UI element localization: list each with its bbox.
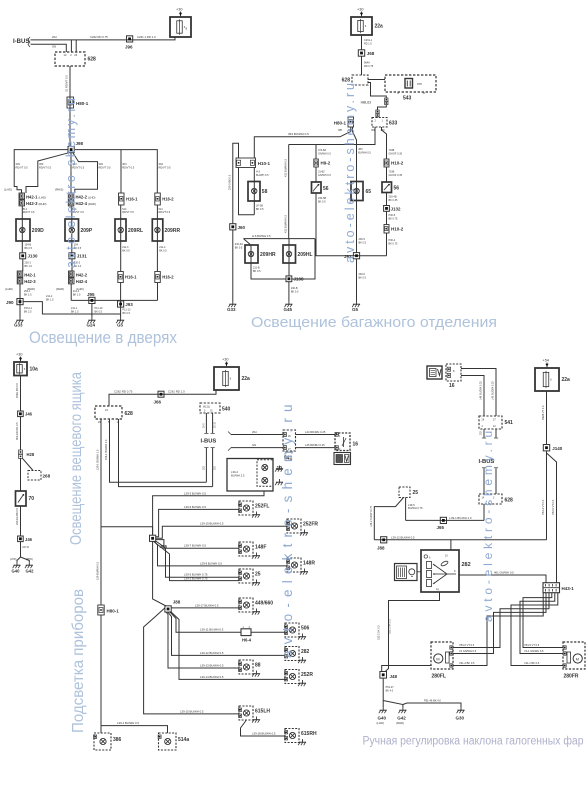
wire J88 to lamp 252R <box>171 612 285 680</box>
svg-text:RD/VT 0.5: RD/VT 0.5 <box>122 211 134 214</box>
svg-text:461 GN/WH 0.5: 461 GN/WH 0.5 <box>494 571 514 575</box>
unit 268 (dashed) <box>28 471 41 481</box>
svg-text:J90: J90 <box>6 300 14 305</box>
connector H10-2 (upper right) <box>384 159 389 167</box>
svg-text:303: 303 <box>159 162 164 166</box>
svg-text:G42: G42 <box>397 716 406 721</box>
wire J98 right branch to H16-1 / H16-2 <box>75 150 157 193</box>
wire J140 V54-4 down-left to bus <box>546 451 548 540</box>
wire 25 down to J65 line <box>405 498 407 521</box>
svg-text:P51-46 BK 4.0: P51-46 BK 4.0 <box>424 699 441 703</box>
svg-text:I-BUS: I-BUS <box>201 439 217 445</box>
wire J65 down to J88 <box>153 541 166 606</box>
lamp 514a <box>159 733 177 750</box>
wire H10-2 to switch 56 right <box>386 167 388 182</box>
svg-text:(LHD): (LHD) <box>5 287 13 291</box>
ground G33 (luggage) <box>232 301 234 304</box>
svg-text:(RHD): (RHD) <box>396 721 404 725</box>
wire H80-1 to H10-1 (363 BU/WH) <box>254 127 350 158</box>
wires I-BUS to module 628 <box>482 467 486 469</box>
svg-text:BK 2.5: BK 2.5 <box>24 310 32 313</box>
connector H9-2 <box>314 159 319 167</box>
svg-text:J46: J46 <box>25 412 33 417</box>
svg-text:BK 0.5: BK 0.5 <box>159 249 167 252</box>
svg-text:G24: G24 <box>87 323 96 328</box>
switch 56 (trunk lid) <box>312 182 322 193</box>
svg-text:+30: +30 <box>357 8 363 12</box>
wire branch to ground G30 <box>403 703 461 707</box>
wire J48 to grounds <box>382 678 384 700</box>
connector H42-1 / H42-3 (upper) <box>19 193 25 199</box>
ground G40 (levelling) <box>382 707 384 710</box>
svg-text:BK 0.75: BK 0.75 <box>389 242 399 245</box>
wire H10-2 down to J91 <box>386 233 388 256</box>
svg-text:25: 25 <box>255 572 261 578</box>
svg-text:BU/WH 2.5: BU/WH 2.5 <box>231 474 245 478</box>
ground G45 <box>288 301 290 304</box>
svg-text:BK 0.5: BK 0.5 <box>318 200 326 203</box>
svg-text:514a: 514a <box>178 737 189 743</box>
wire H10-1 return loop (left pin up-over) <box>233 143 239 224</box>
svg-text:I-BUS: I-BUS <box>13 39 29 45</box>
svg-text:(RHD): (RHD) <box>39 202 47 206</box>
connector 25 (dashed) <box>399 487 410 498</box>
svg-text:BK 1.5: BK 1.5 <box>46 298 54 301</box>
svg-text:10a: 10a <box>30 366 39 372</box>
ground G42 (levelling) <box>402 707 404 710</box>
wire lamp 58 bottom loop to H10-1 left pin <box>239 168 255 215</box>
svg-text:BK 0.5: BK 0.5 <box>25 247 33 250</box>
svg-text:J132: J132 <box>391 206 402 211</box>
svg-text:J131: J131 <box>77 254 88 259</box>
wire 282 bottom to J48 column <box>385 592 439 672</box>
wire fuse 10a to J46 <box>20 376 22 412</box>
svg-text:G42: G42 <box>26 569 35 574</box>
svg-text:H43-1: H43-1 <box>562 586 575 591</box>
svg-text:J130: J130 <box>28 254 39 259</box>
svg-text:H10-1: H10-1 <box>258 161 271 166</box>
svg-text:628: 628 <box>125 411 134 417</box>
svg-text:L39-1 BU/WH 1.0: L39-1 BU/WH 1.0 <box>450 516 472 520</box>
node J91 <box>353 253 359 259</box>
svg-text:Освещение в дверях: Освещение в дверях <box>29 329 178 347</box>
svg-text:GN: GN <box>52 45 56 49</box>
wire switch 56 to J132 <box>386 193 388 206</box>
dimmer wheel icon <box>395 564 418 581</box>
svg-text:C262 RD 0.75: C262 RD 0.75 <box>114 390 133 394</box>
relay box 543 (dashed) <box>385 75 436 92</box>
wire J88 line to 282 and J140 corner <box>374 539 546 541</box>
svg-text:56: 56 <box>394 186 400 192</box>
svg-text:H16-1: H16-1 <box>125 275 137 280</box>
svg-text:282: 282 <box>462 562 471 568</box>
lamp 209P (passenger door) <box>65 219 79 241</box>
svg-text:M: M <box>436 656 439 661</box>
ground G40 (glovebox) <box>16 562 18 565</box>
svg-text:615LH: 615LH <box>255 709 270 715</box>
node J108 <box>286 276 292 282</box>
svg-text:209HL: 209HL <box>298 252 313 258</box>
svg-text:L45 BU/264 0.25: L45 BU/264 0.25 <box>492 381 495 400</box>
headlamp motor 280FL <box>431 642 453 669</box>
svg-text:G5: G5 <box>117 323 124 328</box>
wire H43-1 to 280FL pin2 <box>453 593 546 654</box>
junction J96 <box>127 36 133 42</box>
svg-text:(RHD): (RHD) <box>88 202 96 206</box>
svg-text:56: 56 <box>323 186 329 192</box>
svg-text:HBL63: HBL63 <box>361 101 371 105</box>
connector H80-1 (luggage) <box>348 117 354 127</box>
connector block of unit 16 (dashed) <box>446 364 461 381</box>
svg-text:280FR: 280FR <box>564 674 579 680</box>
wire 280FL ground return to J48 <box>382 666 431 672</box>
svg-text:385: 385 <box>338 129 343 132</box>
wire J65 up to instrument cluster 10 (L39-3) <box>153 491 264 535</box>
instrument cluster 10 with lamps <box>227 459 273 492</box>
node J60 <box>230 224 236 230</box>
svg-text:22a: 22a <box>375 24 384 30</box>
svg-text:386: 386 <box>113 737 122 743</box>
lamp 65 (luggage) <box>351 182 363 201</box>
connector H10-2 (lower right) <box>384 225 389 234</box>
connector H42-1 / H42-3 (lower) <box>17 271 23 277</box>
wire J98 center branch to H42-2 <box>70 153 72 193</box>
wire H80-1 to lamp 65 <box>353 127 357 182</box>
connector H6-4 <box>241 629 251 636</box>
lamp 386 <box>94 733 111 750</box>
svg-text:(LHS): (LHS) <box>4 188 12 192</box>
svg-text:J140: J140 <box>552 446 563 451</box>
svg-text:L39-4: L39-4 <box>231 470 238 474</box>
svg-text:H-6 BU/WH 0.5: H-6 BU/WH 0.5 <box>252 234 271 238</box>
wire J46 to grounds <box>20 542 22 557</box>
junction J131 <box>69 253 75 259</box>
svg-text:J60: J60 <box>238 225 246 230</box>
svg-text:(RHD): (RHD) <box>26 558 33 561</box>
wire J95 to ground G24 <box>91 304 93 318</box>
lamp 506 <box>285 623 299 637</box>
wire J88 to connector H6-4 and lamp 506 <box>170 612 242 633</box>
svg-text:G45: G45 <box>284 307 293 312</box>
svg-text:H42-3: H42-3 <box>24 279 36 284</box>
svg-text:L39-7 BU/WH 0.5: L39-7 BU/WH 0.5 <box>184 544 206 548</box>
svg-text:L39-3 BU/WH 0.5: L39-3 BU/WH 0.5 <box>184 491 206 495</box>
wire riser 628 pin29 to J65/H80-1 <box>100 419 102 527</box>
lamp 252R <box>285 670 299 684</box>
svg-text:G30: G30 <box>456 716 465 721</box>
ground G24 (section1) <box>91 317 93 320</box>
svg-text:252FR: 252FR <box>303 522 318 528</box>
switch module 633 (dashed) <box>372 118 387 128</box>
module 540 (dashed) <box>200 403 220 413</box>
svg-text:Подсветка приборов: Подсветка приборов <box>70 589 87 733</box>
ground G5 (section1) <box>120 317 122 320</box>
svg-text:303: 303 <box>122 162 127 166</box>
wire 615LH to 615RH <box>241 721 286 737</box>
wire J88 to lamp 282 <box>168 612 285 655</box>
svg-text:230-3 BK 0.5: 230-3 BK 0.5 <box>227 174 231 190</box>
svg-text:BK 1.5: BK 1.5 <box>71 310 79 313</box>
wire 633 to right column <box>382 127 387 159</box>
junction J46 (upper) <box>18 411 24 417</box>
svg-text:RD 1.0: RD 1.0 <box>364 42 372 45</box>
wire 628 pin18 loop <box>119 419 213 487</box>
component 978 inside 543 <box>405 79 413 89</box>
svg-text:WH: WH <box>252 430 257 434</box>
svg-text:Освещение вещевого ящика: Освещение вещевого ящика <box>68 372 85 545</box>
wire J91 to ground G5 <box>356 259 358 301</box>
svg-text:GN: GN <box>252 443 256 447</box>
svg-text:L39-1 BU/WH 0.5: L39-1 BU/WH 0.5 <box>117 721 139 725</box>
wire J90 step to J93 column <box>23 302 121 314</box>
wire lamp 65 to J91 <box>356 182 358 253</box>
svg-text:31 RD/VT 0.5: 31 RD/VT 0.5 <box>65 75 69 92</box>
wire J130 to H42-1 lower <box>22 259 24 271</box>
lamp 252FL <box>239 501 253 515</box>
svg-text:L39-13 BU/WH 0.5: L39-13 BU/WH 0.5 <box>200 664 224 668</box>
connector H42-2 / H42-4 (lower) <box>69 271 75 277</box>
lamp 148F <box>239 542 253 556</box>
wire 25 to J88 line (L39-2) <box>374 498 403 540</box>
svg-text:L39-15 BU/WH 0.5: L39-15 BU/WH 0.5 <box>180 709 204 713</box>
connector H28 <box>19 450 23 454</box>
lamp 209RL (rear left door) <box>115 219 126 241</box>
junction J132 <box>384 206 390 212</box>
wire H43-1 to 280FR pin2 <box>520 593 563 654</box>
svg-text:196-1 BU/264 1.0: 196-1 BU/264 1.0 <box>104 439 108 460</box>
svg-text:H42-1: H42-1 <box>26 194 38 199</box>
svg-text:BK 0.5: BK 0.5 <box>253 270 261 273</box>
wire J65 to lamp 252FR (L39-19) <box>156 526 287 538</box>
svg-text:(LHD): (LHD) <box>10 558 17 561</box>
svg-text:G33: G33 <box>14 323 23 328</box>
lamp 252FR <box>287 519 301 533</box>
svg-text:L45 RD/BU 0.25: L45 RD/BU 0.25 <box>305 443 325 447</box>
svg-text:BK 1.5: BK 1.5 <box>24 293 32 296</box>
lamp 209D (driver door) <box>16 219 30 241</box>
svg-text:L39-18 BU/WH 0.5: L39-18 BU/WH 0.5 <box>252 732 276 736</box>
junction J140 <box>543 445 549 451</box>
svg-text:L39-14 BU/WH 0.5: L39-14 BU/WH 0.5 <box>200 675 224 679</box>
svg-text:+30: +30 <box>16 353 22 357</box>
wire H16-2 lower to bus <box>157 283 159 301</box>
svg-text:G5: G5 <box>352 307 359 312</box>
wire 633 to H8-1 branch (412 BU/WH) <box>289 127 375 145</box>
wire J65 to lamp 148F (L39-7) <box>156 540 239 549</box>
lamp 88 <box>239 660 253 674</box>
wires 541 to I-BUS <box>483 429 485 438</box>
wire H43-1 to 280FL pin3 <box>453 593 543 666</box>
switch 282 wiper <box>433 564 447 574</box>
svg-text:J88: J88 <box>377 546 385 551</box>
module 628 (dashed) <box>55 52 85 66</box>
svg-text:V54-4 VT 0.5: V54-4 VT 0.5 <box>541 499 545 515</box>
wire I-BUS WH to module 628 and fuse 8 via J96 <box>31 37 176 40</box>
wire branch to lamps 386 and 514a <box>101 726 168 733</box>
wire J65 to lamp 148R (L39-8) <box>155 541 288 566</box>
wire H80-1 down to lamps 386/514a <box>100 527 102 605</box>
connector H80-1 (section1) <box>67 97 74 108</box>
wire fuse to J140 <box>546 391 548 445</box>
wire J88 to lamp 88 <box>166 612 239 668</box>
module 628 (levelling, dashed) <box>479 494 502 504</box>
svg-text:avto-elektro-shemy.ru: avto-elektro-shemy.ru <box>481 427 495 622</box>
svg-text:BK 0.5: BK 0.5 <box>359 241 367 244</box>
wire J68 to module 628 <box>361 56 363 75</box>
connector H16-2 (lower) <box>155 272 161 283</box>
svg-text:209HR: 209HR <box>260 252 276 258</box>
svg-text:H42-4: H42-4 <box>76 279 88 284</box>
wire 541 bottom stubs <box>285 451 287 454</box>
node J88 (instruments) <box>165 606 171 612</box>
svg-text:GN/OF 0.35: GN/OF 0.35 <box>389 152 403 155</box>
svg-text:BK 0.5: BK 0.5 <box>359 276 367 279</box>
svg-text:+54: +54 <box>543 359 549 363</box>
wire H43-1 to 280FL pin1 <box>453 593 549 648</box>
svg-text:628: 628 <box>505 498 514 504</box>
svg-text:22a: 22a <box>242 376 251 382</box>
svg-text:30-15: 30-15 <box>215 421 217 428</box>
wire J132 to H10-2 lower <box>386 211 388 224</box>
wire H43-1 to 280FR pin1 <box>523 593 563 648</box>
svg-text:H10-2: H10-2 <box>391 227 404 232</box>
svg-text:449/660: 449/660 <box>255 601 273 607</box>
svg-text:L39 BU/WH 0.5: L39 BU/WH 0.5 <box>96 561 100 580</box>
wire J88 to lamp 615LH <box>144 608 239 714</box>
junction J46 (lower) <box>18 536 24 542</box>
svg-text:avto-elektro-shemy.ru: avto-elektro-shemy.ru <box>64 96 78 268</box>
svg-text:(RHS): (RHS) <box>55 188 63 192</box>
wire J98 diagonal branch (LH) <box>26 153 69 193</box>
svg-text:BK 0.5: BK 0.5 <box>235 246 243 249</box>
switch 56 (right column) <box>382 182 392 193</box>
wires connectors to door lamps <box>21 206 23 253</box>
svg-text:H80-1: H80-1 <box>107 609 120 614</box>
wire J98 left branch to H42-1 <box>14 150 68 193</box>
module 541 (levelling, dashed) <box>479 416 502 429</box>
connector H10-1 <box>236 158 256 168</box>
svg-text:J108: J108 <box>294 277 305 282</box>
svg-text:Ручная регулировка наклона гал: Ручная регулировка наклона галогенных фа… <box>363 736 584 748</box>
svg-text:BK 0.5: BK 0.5 <box>123 312 131 315</box>
wire J65 to lamp 252FL (L39-6) <box>156 509 239 536</box>
svg-text:H16-2: H16-2 <box>162 275 174 280</box>
svg-text:230-EA BK 0.5: 230-EA BK 0.5 <box>15 507 19 525</box>
module 541 (instruments, dashed) <box>283 430 296 451</box>
ground G42 (glovebox) <box>28 562 30 565</box>
wires I-BUS to module 541 <box>228 432 231 435</box>
junction J68 <box>358 50 364 56</box>
display unit 16 (SID, instruments) <box>335 433 350 451</box>
svg-text:506: 506 <box>301 626 310 632</box>
connector H16-1 (upper) <box>119 193 125 205</box>
wire 628 pin 26 to fuse feed <box>75 40 77 52</box>
wire fuse to J68 <box>361 35 363 50</box>
wire J108 to ground G45 <box>288 282 290 301</box>
svg-text:+30: +30 <box>222 358 228 362</box>
svg-text:L39-17 BU/WH 0.5: L39-17 BU/WH 0.5 <box>195 603 219 607</box>
wire J46 to H28 <box>20 417 22 450</box>
svg-text:GN/WH 0.5: GN/WH 0.5 <box>318 174 331 177</box>
wire branch to J65 <box>101 527 153 536</box>
ground G5 (luggage) <box>356 301 358 304</box>
svg-text:282: 282 <box>301 649 310 655</box>
wire 282 output to H43-1 <box>459 575 546 583</box>
wire 628 to J65 line <box>483 504 485 520</box>
svg-text:L39-19 BU/WH 0.5: L39-19 BU/WH 0.5 <box>200 522 224 526</box>
svg-text:65: 65 <box>366 189 372 195</box>
svg-text:BU/WH 0.5: BU/WH 0.5 <box>358 151 371 154</box>
svg-text:V21-2 BK 0.5: V21-2 BK 0.5 <box>459 661 475 665</box>
wire I-BUS GN to module 628 <box>31 44 67 52</box>
svg-text:J48: J48 <box>390 674 398 679</box>
connector H16-1 (lower) <box>118 272 124 283</box>
svg-text:L39-2 BU/WH 0.75: L39-2 BU/WH 0.75 <box>184 577 208 581</box>
svg-text:303: 303 <box>39 162 44 166</box>
module 628 (luggage, dashed) <box>352 75 368 85</box>
svg-text:avto-elektro-shemy.ru: avto-elektro-shemy.ru <box>280 398 295 658</box>
svg-text:22a: 22a <box>562 377 571 383</box>
lamp 615LH <box>239 706 253 720</box>
svg-text:BK 0.35: BK 0.35 <box>389 199 399 202</box>
svg-text:G40: G40 <box>378 716 387 721</box>
wire H9-2 to switch 56 <box>315 167 317 182</box>
svg-text:RD/VT 0.5: RD/VT 0.5 <box>159 165 172 169</box>
svg-text:V54-6 VT 0.5: V54-6 VT 0.5 <box>459 643 475 647</box>
wire H10-1 right pin to lamp 58 <box>253 168 255 215</box>
svg-text:RD/VT 0.5: RD/VT 0.5 <box>122 165 135 169</box>
wire H28 diagonal to unit 268 <box>23 458 34 470</box>
svg-text:BK 0.5: BK 0.5 <box>291 290 299 293</box>
svg-text:RD/VT 0.5: RD/VT 0.5 <box>23 211 35 214</box>
node J65 (levelling) <box>440 517 446 523</box>
svg-text:L39-1 BU/WH 1.0: L39-1 BU/WH 1.0 <box>96 449 100 470</box>
node J65 (instruments) <box>150 535 156 541</box>
wire split to G40/G42 <box>17 557 21 562</box>
connector H43-1 <box>543 583 560 593</box>
connector H42-2 / H42-4 (upper) <box>68 193 74 199</box>
svg-text:209RR: 209RR <box>165 228 181 234</box>
wire luggage lamps top bus <box>244 238 316 240</box>
wires 540 to I-BUS <box>205 413 207 433</box>
wire 628 pin 2 to bus <box>70 40 72 52</box>
wire H9-2 branch <box>315 145 317 160</box>
headlamp level switch 282 <box>421 550 459 592</box>
svg-text:R628 VT 1.0: R628 VT 1.0 <box>541 405 545 420</box>
wire 541 to display 16 (L44) <box>296 434 336 436</box>
svg-text:252FL: 252FL <box>255 504 269 510</box>
svg-text:G33: G33 <box>227 307 236 312</box>
svg-text:H16-1: H16-1 <box>126 197 138 202</box>
wire 412 vertical through H8-1 <box>288 145 290 239</box>
svg-text:227-D: 227-D <box>22 546 29 549</box>
svg-text:540: 540 <box>222 407 231 413</box>
svg-text:16: 16 <box>449 383 455 389</box>
junction J48 <box>380 672 387 679</box>
wire 628 to J98 via H80-1 <box>69 66 71 146</box>
wire J65 to lamp 25 pin2 (L39-2) <box>154 541 240 580</box>
svg-text:V1 GN/WH 0.5: V1 GN/WH 0.5 <box>459 649 477 653</box>
svg-text:S21-2 BK 0.5: S21-2 BK 0.5 <box>389 619 392 634</box>
svg-text:H42-1: H42-1 <box>24 272 36 277</box>
lamp 25 <box>239 569 253 583</box>
svg-text:V54-5 VT 0.5: V54-5 VT 0.5 <box>524 643 540 647</box>
svg-text:L39-6 BU/WH 0.5: L39-6 BU/WH 0.5 <box>184 505 206 509</box>
svg-text:RD/VT 0.5: RD/VT 0.5 <box>99 165 112 169</box>
svg-text:615RH: 615RH <box>301 731 317 737</box>
svg-text:BK 0.5: BK 0.5 <box>256 208 264 211</box>
wire 628 pin5 loop <box>110 419 207 482</box>
